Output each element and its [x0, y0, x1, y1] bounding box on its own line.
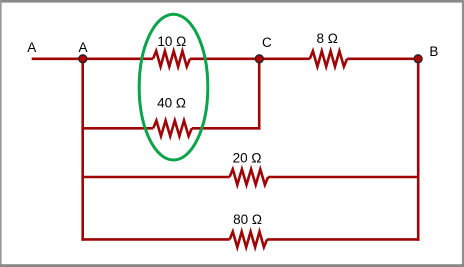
node B dot [414, 55, 422, 63]
svg-text:B: B [429, 44, 438, 59]
wire left vertical from node A [81, 59, 84, 241]
wire right vertical from node B [417, 59, 420, 241]
node C dot [255, 55, 263, 63]
svg-text:C: C [262, 35, 272, 50]
svg-text:10 Ω: 10 Ω [157, 34, 186, 49]
svg-text:80 Ω: 80 Ω [233, 212, 262, 227]
resistor 20 ohm [230, 169, 269, 185]
node A dot [79, 55, 87, 63]
green highlight ellipse [139, 14, 208, 160]
svg-text:8 Ω: 8 Ω [317, 31, 338, 46]
resistor 80 ohm [230, 232, 267, 248]
svg-text:A: A [27, 40, 36, 55]
svg-text:20 Ω: 20 Ω [233, 150, 262, 165]
wire 40 ohm branch [81, 127, 260, 130]
resistor 40 ohm [153, 121, 192, 137]
wire vertical from node C [258, 59, 261, 130]
resistor 10 ohm [153, 51, 190, 67]
wire 20 ohm branch [81, 176, 419, 179]
wire top A to C [32, 57, 260, 60]
svg-text:A: A [78, 40, 87, 55]
wire C to resistor 8 ohm [259, 57, 418, 60]
wire 80 ohm branch [81, 238, 419, 241]
resistor 8 ohm [310, 51, 347, 67]
svg-text:40 Ω: 40 Ω [157, 95, 186, 110]
